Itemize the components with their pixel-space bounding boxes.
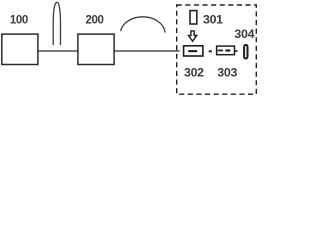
down arrow: [189, 31, 197, 41]
component 304 (vertical capsule): [244, 45, 247, 59]
component 301: [190, 11, 197, 24]
inner dash of 302: [188, 50, 197, 52]
svg-text:100: 100: [10, 15, 28, 27]
dashed enclosure 300: [177, 5, 257, 94]
dome arc above wire: [121, 17, 166, 33]
inner dashes of 303: [218, 50, 223, 52]
svg-text:303: 303: [217, 65, 237, 79]
wire box200 into enclosure: [114, 50, 180, 52]
svg-text:304: 304: [234, 27, 254, 41]
svg-text:200: 200: [86, 15, 104, 27]
stub wire out of 303: [235, 50, 237, 52]
box 100: [2, 34, 38, 64]
component 303: [217, 46, 235, 55]
svg-text:301: 301: [203, 13, 223, 27]
arc lamp symbol (tall arch): [53, 2, 60, 45]
wire box100 to box200: [38, 50, 78, 52]
component 302: [184, 46, 203, 56]
box 200: [78, 34, 114, 64]
svg-text:302: 302: [184, 65, 204, 79]
dashed wire 302 to 303: [209, 50, 212, 52]
